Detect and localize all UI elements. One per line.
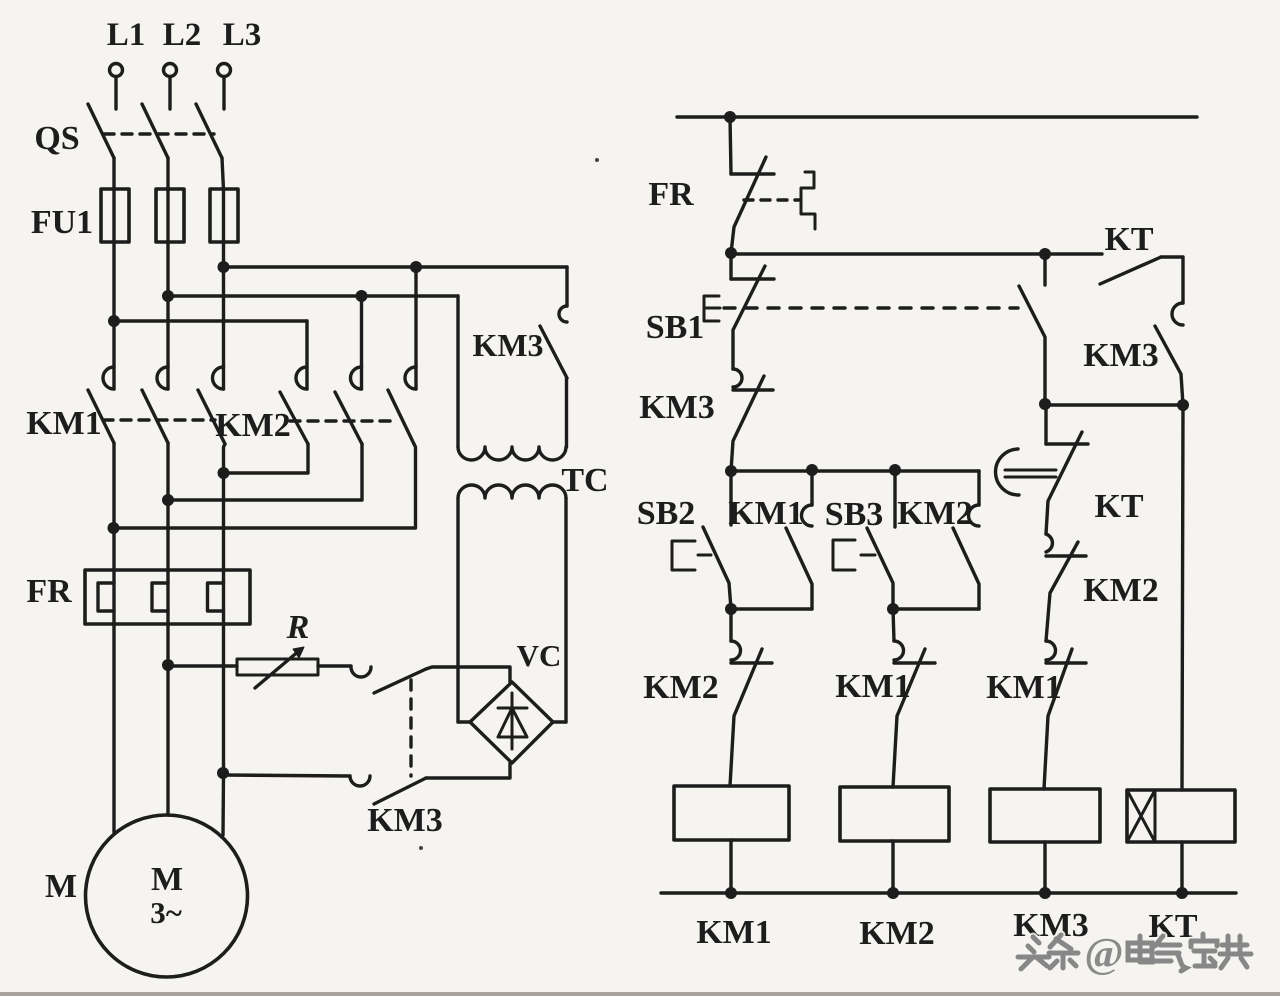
contact KM1 interlock3 blade — [1044, 649, 1072, 789]
svg-text:R: R — [286, 609, 310, 646]
node dot branch mid left — [1039, 398, 1051, 410]
wire feed KM2 pole2 down — [360, 296, 363, 389]
button SB2 lead — [729, 471, 732, 525]
watermark char bao — [1191, 934, 1217, 966]
transformer TC secondary right lead — [564, 498, 567, 722]
contact KM2 interlock arc — [731, 641, 741, 660]
contact KM1 interlock3 arc — [1046, 641, 1056, 660]
svg-text:SB1: SB1 — [646, 309, 705, 346]
switch QS pole 3 blade — [196, 104, 222, 158]
wire phase W vertical (fuse to KM contact) — [222, 190, 225, 389]
contact KM2 pole1 blade — [280, 392, 308, 444]
wire phase V vertical (fuse to KM contact) — [166, 190, 169, 389]
node dot rail3 KM1 — [806, 464, 818, 476]
motor M circle — [86, 815, 248, 977]
contact KM1 parallel lead — [810, 470, 813, 505]
wire KM1 coil bottom — [729, 840, 732, 893]
rectifier VC diamond — [470, 682, 553, 763]
button SB3 actuator — [833, 540, 875, 570]
watermark char dian4 — [1220, 936, 1251, 968]
contact KM1 interlock2 arc — [894, 641, 904, 660]
contact KM3 selfhold blade — [731, 376, 764, 471]
node dot top rail — [724, 111, 736, 123]
wire motor line V (KM to FR) — [166, 443, 169, 570]
node dot feed KM2 pole3 — [410, 261, 422, 273]
button SB1 NC blade — [733, 266, 765, 369]
contact KM3 right blade — [1155, 326, 1183, 405]
contact KM1 interlock2 blade — [893, 649, 925, 787]
linkage FR dashed — [744, 198, 799, 201]
wire W tap to bottom contact — [223, 775, 350, 776]
button SB2 actuator — [672, 541, 711, 570]
node dot KM1 bottom rail — [725, 887, 737, 899]
contact KM1 interlock2 lead — [893, 609, 894, 641]
terminal L1 — [110, 64, 123, 77]
contact KM1 pole2 blade — [142, 390, 168, 443]
svg-text:KM2: KM2 — [215, 407, 291, 444]
fuse FU1 pole 2 — [156, 189, 184, 242]
contact FR NC tick — [731, 172, 774, 175]
linkage KM2 dashed — [290, 419, 396, 422]
contact FR NC blade — [731, 157, 766, 253]
terminal L3 — [218, 64, 231, 77]
svg-text:KM1: KM1 — [696, 914, 772, 951]
contact KT delay arc — [996, 449, 1019, 495]
contact KM3 selfhold arc — [733, 369, 742, 387]
button SB2 NO blade — [703, 527, 731, 609]
wire resistor to KM3 contact — [318, 664, 351, 667]
contact KM2 interlock blade — [730, 649, 762, 786]
contact KM1 interlock3 tick — [1046, 661, 1086, 664]
svg-text:L2: L2 — [163, 17, 202, 53]
svg-text:@: @ — [1084, 931, 1123, 977]
wire control bottom rail — [661, 891, 1236, 894]
svg-text:KM1: KM1 — [835, 668, 911, 705]
contact KM2 pole2 blade — [335, 392, 362, 444]
wire U through FR to motor — [112, 570, 115, 832]
node dot KT bottom rail — [1176, 887, 1188, 899]
switch QS pole 1 blade — [88, 104, 114, 158]
wire KM2 pole1 output — [224, 444, 309, 473]
bottom edge strip — [0, 992, 1280, 996]
contact KT delayed tick — [1046, 442, 1088, 445]
watermark char dian2 — [1128, 936, 1152, 962]
wire phase U vertical (fuse to KM contact) — [112, 190, 115, 389]
wire KT branch vertical — [1182, 405, 1183, 790]
wire SB3-KM2 bottom — [893, 607, 979, 610]
svg-text:KM3: KM3 — [367, 802, 443, 839]
svg-text:KM3: KM3 — [1083, 337, 1159, 374]
coil KT box — [1127, 790, 1235, 842]
speck artifact 1 — [595, 158, 599, 162]
svg-text:KM2: KM2 — [643, 669, 719, 706]
button SB1 NC tick — [731, 277, 774, 280]
switch QS pole 2 blade — [142, 104, 168, 158]
wire W through FR to motor — [221, 570, 225, 835]
transformer TC primary winding — [458, 447, 566, 460]
contact KM2 pole2 arc — [351, 367, 362, 389]
wire tap L2 to TC primary (y=296) — [168, 294, 458, 297]
contact KM3 right arc — [1172, 303, 1183, 325]
node dot L1 tap — [108, 315, 120, 327]
contact KM1 pole1 arc — [103, 367, 114, 389]
wire SB2-KM1 bottom — [731, 607, 812, 610]
svg-text:KM2: KM2 — [859, 915, 935, 952]
svg-text:KM1: KM1 — [986, 669, 1062, 706]
speck artifact 2 — [419, 846, 423, 850]
button SB3 lead — [893, 470, 896, 527]
svg-text:FU1: FU1 — [31, 204, 93, 241]
wire mid link — [1045, 403, 1183, 406]
wire blade to VC top corner — [426, 667, 510, 682]
node dot rail2 branch — [1039, 248, 1051, 260]
contact KT delayed lead — [1044, 405, 1047, 444]
coil KM1 — [674, 786, 789, 840]
svg-text:VC: VC — [517, 638, 562, 673]
wire control rail3 — [731, 469, 979, 472]
svg-text:KM3: KM3 — [639, 389, 715, 426]
watermark char qi — [1154, 936, 1186, 971]
svg-text:KT: KT — [1094, 488, 1143, 525]
linkage KM3 brake dashed — [409, 680, 412, 776]
contact KM2 interlock3 blade — [1046, 542, 1078, 641]
resistor R body — [237, 659, 318, 675]
contact KM3 TC blade — [540, 326, 567, 378]
node dot KM2 bottom rail — [887, 887, 899, 899]
contact KM3 brake top blade — [374, 669, 426, 693]
wire VC left corner stub — [458, 720, 470, 723]
wire L2 QS to fuse — [166, 158, 169, 190]
wire L3 QS to fuse — [222, 158, 224, 190]
contact KM3 TC lead — [565, 267, 568, 306]
contact KM2 interlock tick — [731, 661, 772, 664]
contact KM2 parallel lead — [977, 471, 980, 505]
contact KM1 parallel arc — [802, 505, 813, 526]
svg-text:QS: QS — [34, 120, 79, 157]
relay FR heater 3 — [208, 583, 224, 611]
contact KM1 pole3 arc — [213, 367, 224, 389]
relay FR reset bracket — [801, 172, 815, 229]
wire KM3 coil bottom — [1043, 842, 1046, 893]
contact KM2 interlock3 arc — [1046, 534, 1052, 552]
svg-text:KM1: KM1 — [728, 495, 804, 532]
contact KM1 pole2 arc — [157, 367, 168, 389]
contact KM2 parallel blade — [953, 528, 979, 609]
contact KM1 interlock2 tick — [894, 661, 935, 664]
wire control top rail — [677, 115, 1197, 118]
svg-text:FR: FR — [648, 176, 694, 213]
contact KT delay chords — [1005, 470, 1056, 477]
wire tap L3 to KM3 top (y=267) — [224, 265, 568, 268]
button SB1 lead — [729, 254, 732, 279]
diode bar in VC — [498, 707, 527, 710]
svg-text:KM3: KM3 — [472, 327, 543, 363]
coil KT X section — [1127, 790, 1155, 842]
transformer TC secondary left lead — [456, 498, 459, 722]
wire KM2 pole2 output — [168, 444, 362, 500]
contact KM2 pole3 arc — [405, 367, 416, 389]
svg-text:KM3: KM3 — [1013, 907, 1089, 944]
linkage KM1 dashed — [103, 418, 215, 421]
contact KM1 parallel blade — [786, 528, 812, 609]
svg-text:KM2: KM2 — [897, 495, 973, 532]
contact KM3 brake top arc — [351, 667, 371, 677]
node dot SB3 bottom — [887, 603, 899, 615]
svg-text:L1: L1 — [107, 17, 146, 53]
node dot rail3 SB3 — [889, 464, 901, 476]
svg-text:TC: TC — [561, 462, 608, 499]
fuse FU1 pole 1 — [101, 189, 129, 242]
fuse FU1 pole 3 — [210, 189, 238, 242]
wire lead to FR contact — [730, 117, 731, 174]
coil KM2 — [840, 787, 949, 841]
button SB1 actuator — [704, 296, 720, 321]
contact KM3 brake bottom blade — [374, 778, 426, 804]
relay FR heater 1 — [98, 583, 114, 611]
contact KT delayed blade — [1046, 432, 1082, 534]
node dot branch mid right — [1177, 399, 1189, 411]
node dot KM3 bottom rail — [1039, 887, 1051, 899]
transformer TC primary right lead — [565, 378, 568, 447]
node dot pole2 join — [162, 494, 174, 506]
resistor R arrow — [255, 650, 300, 688]
wire tap L1 to KM2 pole1 (y=321) — [114, 319, 307, 322]
wire V through FR to motor — [166, 570, 169, 815]
watermark char tou — [1018, 937, 1049, 969]
svg-text:M: M — [45, 868, 77, 905]
watermark char tiao — [1049, 935, 1078, 968]
wire L2 terminal lead — [168, 77, 171, 109]
contact KT NC top blade — [1100, 257, 1161, 284]
svg-text:L3: L3 — [223, 17, 262, 53]
wire KM2 pole3 output — [114, 444, 416, 528]
button SB1 NO lead — [1043, 254, 1046, 285]
contact KM1 pole3 blade — [198, 390, 225, 444]
contact KM2 interlock3 tick — [1046, 554, 1086, 557]
contact KM3 brake bottom arc — [350, 776, 370, 786]
relay FR heater 2 — [152, 583, 168, 611]
svg-text:SB2: SB2 — [637, 495, 696, 532]
svg-text:3~: 3~ — [150, 895, 182, 930]
button SB1 NO blade — [1019, 286, 1045, 404]
coil KM3 — [990, 789, 1100, 842]
wire L3 terminal lead — [222, 77, 225, 109]
wire KT coil bottom — [1180, 842, 1183, 893]
wire KT NC to right — [1161, 257, 1183, 303]
node dot pole3 join — [218, 467, 230, 479]
contact KM1 pole1 blade — [88, 390, 114, 443]
node dot feed KM2 pole2 — [356, 290, 368, 302]
node dot R tap on line V — [162, 659, 174, 671]
wire motor line U (KM to FR) — [112, 443, 115, 570]
linkage SB1 dashed — [724, 306, 1018, 309]
wire L1 QS to fuse — [112, 158, 115, 190]
relay FR box — [85, 570, 250, 624]
wire feed KM2 pole3 down — [414, 267, 417, 389]
switch QS linkage dashed — [104, 132, 214, 135]
wire control rail2 — [731, 252, 1102, 255]
svg-text:KM2: KM2 — [1083, 572, 1159, 609]
node dot rail2 left — [725, 247, 737, 259]
wire KM2 coil bottom — [891, 841, 894, 893]
node dot L3 tap — [218, 261, 230, 273]
wire feed KM2 pole1 down — [305, 321, 308, 389]
transformer TC secondary winding — [458, 485, 566, 498]
terminal L2 — [164, 64, 177, 77]
wire V tap to resistor — [168, 664, 237, 667]
node dot SB2 bottom — [725, 603, 737, 615]
transformer TC primary left lead — [456, 296, 459, 447]
node dot rail3 left — [725, 465, 737, 477]
svg-text:SB3: SB3 — [825, 496, 884, 533]
contact KM3 TC arc — [559, 306, 567, 322]
contact KM2 pole1 arc — [296, 367, 307, 389]
node dot W tap (brake) — [217, 767, 229, 779]
diode lead in VC — [511, 693, 514, 749]
wire blade to VC bottom corner — [426, 763, 510, 778]
contact KM2 parallel arc — [969, 505, 980, 526]
wire L1 terminal lead — [114, 77, 117, 109]
wire motor line W (KM to FR) — [224, 444, 226, 570]
svg-text:M: M — [151, 861, 183, 898]
svg-text:KT: KT — [1104, 221, 1153, 258]
node dot L2 tap — [162, 290, 174, 302]
contact KM2 interlock lead — [729, 609, 732, 641]
svg-text:FR: FR — [26, 573, 72, 610]
button SB3 NO blade — [867, 528, 893, 609]
wire VC right corner stub — [553, 720, 566, 723]
svg-text:KM1: KM1 — [26, 405, 102, 442]
contact KM2 pole3 blade — [388, 390, 414, 444]
contact KM3 selfhold tick — [733, 388, 773, 391]
diode triangle in VC — [498, 708, 527, 737]
WATERMARK — [1018, 934, 1251, 971]
node dot pole1 join — [108, 522, 120, 534]
